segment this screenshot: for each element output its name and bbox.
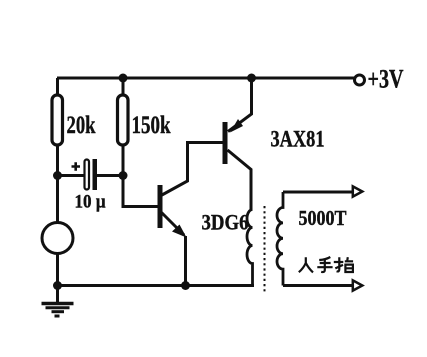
char ren xyxy=(299,257,313,272)
node junction on rail at R2 xyxy=(119,74,128,83)
wire: secondary top output xyxy=(283,191,352,194)
char zhi xyxy=(334,257,353,272)
svg-text:3AX81: 3AX81 xyxy=(271,127,325,152)
wire: Q1 emitter diagonal xyxy=(162,213,185,236)
Q1 emitter arrowhead xyxy=(172,225,187,238)
wire: R2 bottom to cap junction xyxy=(122,146,125,176)
node junction left of capacitor xyxy=(53,171,62,180)
wire: Q1 collector up to Q2 base xyxy=(161,143,223,196)
wire: left vertical from rail to R1 xyxy=(56,78,59,96)
capacitor C1 10u polarized positive plate xyxy=(85,160,90,190)
label ren-shou-zhi (human finger) drawn strokes xyxy=(299,257,353,272)
node junction right of capacitor xyxy=(119,171,128,180)
wire: junction to capacitor left plate xyxy=(57,174,84,177)
output arrow bottom xyxy=(353,280,363,290)
svg-text:150k: 150k xyxy=(132,112,171,139)
microphone MIC xyxy=(56,176,59,224)
transformer core xyxy=(264,206,266,293)
wire: stub down to ground xyxy=(56,286,59,304)
resistor R1 20k xyxy=(52,95,63,145)
svg-text:+3V: +3V xyxy=(368,65,404,94)
transistor Q1 3DG6 xyxy=(158,185,163,228)
wire: rail to R2 xyxy=(122,78,125,96)
wire: Q2 collector down to transformer xyxy=(228,150,252,210)
ground xyxy=(42,302,74,306)
terminal +3V circle xyxy=(355,75,365,85)
output arrow top xyxy=(353,186,363,196)
wire: bottom rail xyxy=(58,284,255,287)
svg-text:5000T: 5000T xyxy=(299,206,347,230)
svg-text:3DG6: 3DG6 xyxy=(202,210,249,235)
label + polarity xyxy=(72,162,81,170)
wire: top supply rail xyxy=(57,77,354,80)
transformer T1 secondary winding xyxy=(277,192,283,286)
wire: Q1 emitter down to bottom rail xyxy=(184,236,187,286)
capacitor C1 negative plate xyxy=(93,159,98,190)
wire: microphone to bottom rail xyxy=(56,254,59,287)
wire: R1 bottom to cap junction xyxy=(56,146,59,176)
Q2 emitter arrowhead xyxy=(230,119,243,133)
wire: junction down and right to Q1 base xyxy=(123,176,158,207)
wire: secondary bottom output xyxy=(283,284,352,287)
node junction bottom-left xyxy=(53,281,62,290)
char shou xyxy=(317,257,332,272)
node junction on rail for Q2 emitter xyxy=(247,74,256,83)
node junction emitter to rail xyxy=(181,281,190,290)
wire: Q2 emitter from rail xyxy=(228,78,252,132)
svg-text:20k: 20k xyxy=(67,112,96,139)
wire: capacitor right plate to R2 junction xyxy=(97,174,123,177)
resistor R2 150k xyxy=(118,95,129,145)
transistor Q2 3AX81 xyxy=(223,122,228,164)
svg-text:10 μ: 10 μ xyxy=(75,192,106,213)
transformer T1 primary winding xyxy=(247,210,253,286)
